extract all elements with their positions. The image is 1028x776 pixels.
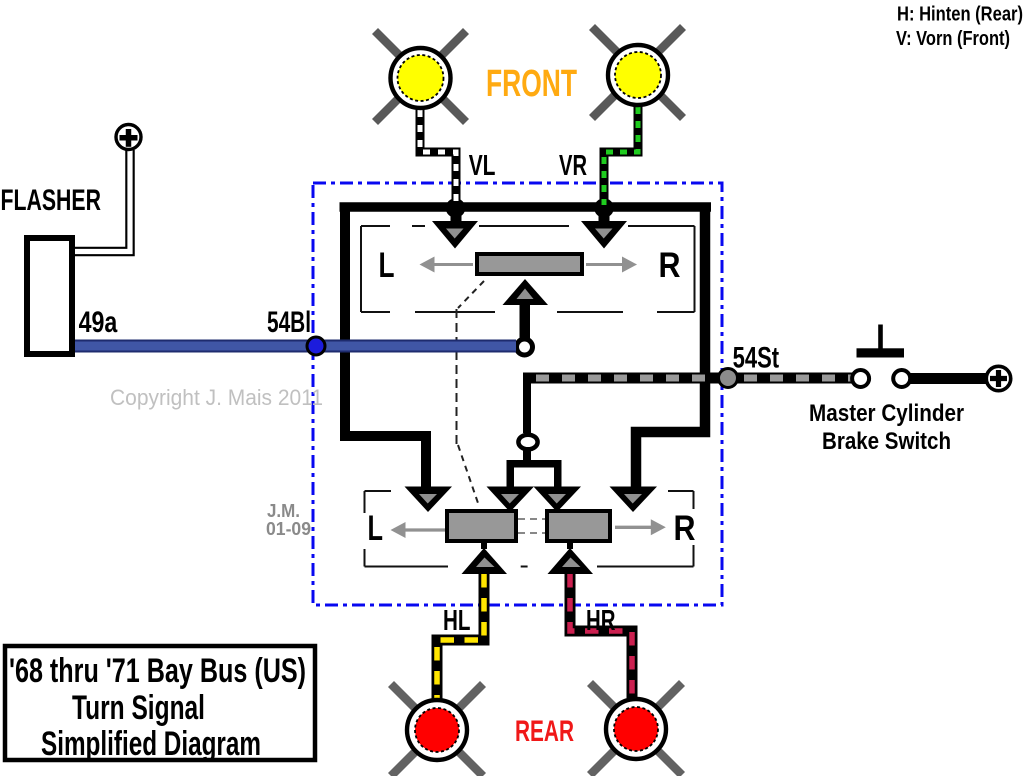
svg-text:01-09: 01-09 [266,519,311,539]
svg-text:R: R [659,246,681,285]
svg-text:Turn Signal: Turn Signal [72,689,205,727]
svg-text:Brake Switch: Brake Switch [822,428,951,455]
svg-text:R: R [674,509,696,548]
svg-text:'68 thru '71 Bay Bus (US): '68 thru '71 Bay Bus (US) [9,652,306,690]
svg-text:Copyright J. Mais 2011: Copyright J. Mais 2011 [110,385,323,410]
svg-text:J.M.: J.M. [267,501,300,521]
svg-text:Master Cylinder: Master Cylinder [809,400,964,427]
svg-text:VL: VL [469,150,496,182]
svg-text:REAR: REAR [515,715,574,748]
svg-text:L: L [368,509,384,548]
svg-text:54St: 54St [733,341,780,374]
svg-text:HL: HL [443,605,471,637]
svg-text:VR: VR [559,150,587,182]
svg-text:HR: HR [586,605,616,637]
svg-text:FRONT: FRONT [486,63,577,105]
svg-text:49a: 49a [79,306,118,339]
svg-text:54Bl: 54Bl [267,306,311,339]
svg-text:L: L [379,246,395,285]
svg-text:FLASHER: FLASHER [1,184,102,217]
svg-text:H: Hinten (Rear): H: Hinten (Rear) [897,4,1023,26]
svg-text:Simplified Diagram: Simplified Diagram [41,725,261,763]
svg-text:V: Vorn (Front): V: Vorn (Front) [896,28,1010,50]
